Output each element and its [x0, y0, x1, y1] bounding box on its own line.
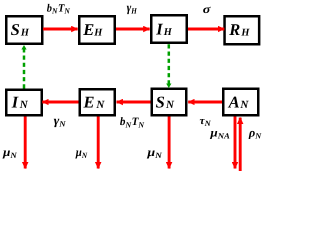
rho_N inflow to A_N — [239, 118, 242, 171]
box S_N — [152, 89, 187, 116]
box I_H — [151, 15, 187, 43]
wire I_H to R_H — [188, 28, 224, 31]
box I_N — [6, 90, 42, 116]
wire A_N to S_N — [188, 101, 222, 104]
mu_N outflow from E_N — [97, 117, 100, 169]
box E_N — [80, 89, 115, 115]
box E_H — [79, 16, 115, 44]
wire E_H to I_H — [116, 28, 150, 31]
wire E_N to I_N — [42, 101, 78, 104]
box S_H — [6, 16, 42, 44]
green dashed arrow I_N up to S_H — [23, 45, 26, 88]
mu_N outflow from S_N — [168, 117, 171, 169]
wire S_N to E_N — [117, 101, 151, 104]
svg-text:σ: σ — [203, 2, 211, 16]
wire S_H to E_H — [43, 28, 78, 31]
green dashed arrow I_H down to S_N — [168, 44, 171, 87]
mu_N outflow from I_N — [24, 117, 27, 169]
box A_N — [223, 89, 258, 116]
mu_NA outflow from A_N — [234, 117, 237, 169]
box R_H — [225, 16, 260, 44]
